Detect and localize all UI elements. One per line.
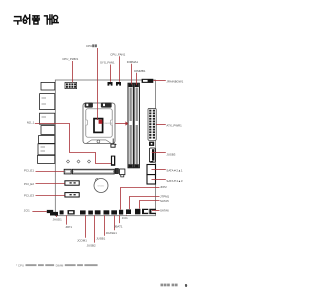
svg-text:SATA▼2▲1: SATA▼2▲1 (166, 168, 182, 172)
svg-text:SATA▼4▲3: SATA▼4▲3 (166, 179, 182, 183)
svg-text:JUSB1: JUSB1 (96, 237, 105, 241)
svg-text:JFP2: JFP2 (160, 185, 167, 189)
svg-text:DIMMA1: DIMMA1 (127, 60, 139, 64)
svg-text:DIMMB1: DIMMB1 (134, 69, 146, 73)
svg-text:M2_1: M2_1 (27, 120, 35, 124)
svg-text:SATA5: SATA5 (160, 199, 169, 203)
svg-text:JCOM1: JCOM1 (77, 239, 87, 243)
svg-text:JRAINBOW1: JRAINBOW1 (166, 79, 183, 83)
svg-text:PCI_E1: PCI_E1 (24, 169, 34, 173)
svg-text:SATA6: SATA6 (160, 208, 169, 212)
svg-text:* CPU: * CPU (16, 263, 24, 267)
svg-text:JFP1: JFP1 (65, 225, 72, 229)
svg-text:ATX_PWR1: ATX_PWR1 (166, 124, 182, 128)
svg-text:DIMM: DIMM (56, 263, 64, 267)
svg-text:JUSB3: JUSB3 (166, 152, 175, 156)
svg-text:JCI1: JCI1 (24, 208, 30, 212)
svg-text:JTPM1: JTPM1 (160, 194, 170, 198)
svg-text:CPU_FAN1: CPU_FAN1 (110, 52, 125, 56)
svg-text:PCI_E3: PCI_E3 (24, 194, 34, 198)
svg-text:JBAT1: JBAT1 (114, 224, 123, 228)
svg-text:9: 9 (185, 283, 188, 288)
svg-text:SYS_FAN1: SYS_FAN1 (100, 61, 115, 65)
svg-text:CPU_PWR1: CPU_PWR1 (62, 57, 78, 61)
svg-text:CPU: CPU (86, 44, 92, 48)
svg-text:JCI1: JCI1 (122, 216, 128, 220)
svg-text:PCI_E2: PCI_E2 (24, 182, 34, 186)
svg-text:CR2032: CR2032 (97, 186, 104, 188)
svg-text:JAUD1: JAUD1 (53, 217, 63, 221)
svg-text:LGA1200: LGA1200 (103, 122, 113, 125)
svg-text:JDASH1: JDASH1 (106, 231, 117, 235)
svg-text:JUSB2: JUSB2 (87, 244, 96, 248)
